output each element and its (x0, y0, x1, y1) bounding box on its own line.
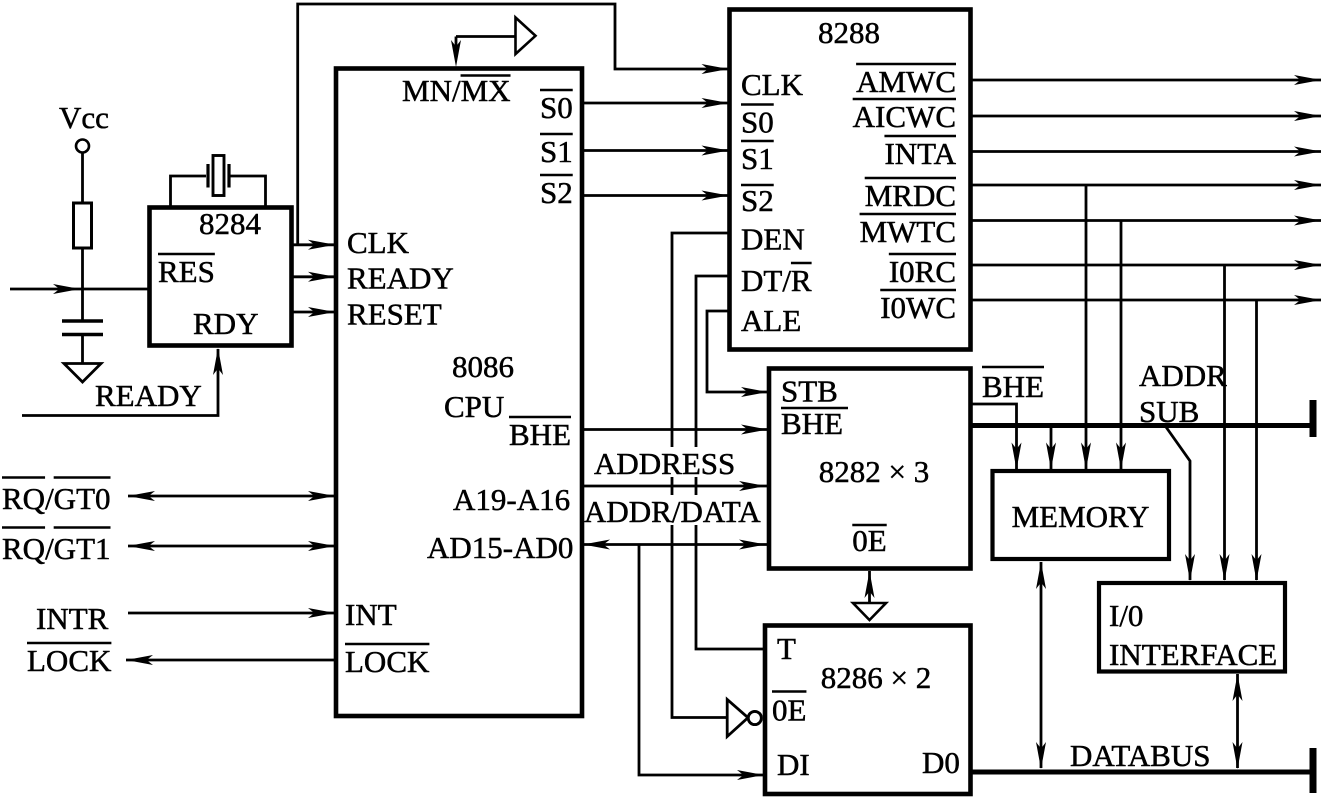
svg-text:S1: S1 (741, 141, 774, 176)
svg-text:LOCK: LOCK (27, 643, 112, 678)
svg-text:RESET: RESET (347, 297, 442, 332)
svg-text:0E: 0E (772, 693, 806, 728)
svg-text:8288: 8288 (818, 15, 880, 50)
svg-text:BHE: BHE (781, 406, 843, 441)
svg-text:STB: STB (781, 374, 838, 409)
svg-text:INTERFACE: INTERFACE (1109, 637, 1277, 672)
svg-text:READY: READY (347, 261, 454, 296)
svg-text:DATABUS: DATABUS (1070, 738, 1210, 773)
svg-text:S2: S2 (741, 183, 774, 218)
svg-text:I0RC: I0RC (889, 254, 956, 289)
svg-text:CLK: CLK (741, 67, 804, 102)
svg-text:AMWC: AMWC (856, 64, 956, 99)
svg-text:8284: 8284 (199, 206, 262, 241)
svg-text:INT: INT (345, 597, 397, 632)
svg-text:D0: D0 (922, 745, 960, 780)
svg-text:MRDC: MRDC (865, 178, 956, 213)
svg-text:ADDRESS: ADDRESS (594, 446, 735, 481)
svg-text:S0: S0 (540, 90, 573, 125)
svg-text:Vcc: Vcc (59, 100, 109, 135)
svg-text:AD15-AD0: AD15-AD0 (427, 530, 573, 565)
svg-text:S0: S0 (741, 105, 774, 140)
svg-text:ADDR/DATA: ADDR/DATA (584, 494, 761, 529)
svg-text:BHE: BHE (509, 417, 571, 452)
svg-text:8286 × 2: 8286 × 2 (821, 660, 931, 695)
svg-text:MN/MX: MN/MX (402, 73, 511, 108)
svg-text:RQ/GT0: RQ/GT0 (2, 481, 111, 516)
svg-text:RDY: RDY (193, 306, 258, 341)
svg-text:A19-A16: A19-A16 (453, 482, 570, 517)
svg-text:0E: 0E (852, 523, 886, 558)
svg-text:MEMORY: MEMORY (1012, 499, 1150, 534)
svg-text:INTA: INTA (884, 136, 956, 171)
svg-text:LOCK: LOCK (345, 644, 430, 679)
svg-text:RQ/GT1: RQ/GT1 (2, 531, 111, 566)
svg-text:8282 × 3: 8282 × 3 (819, 454, 929, 489)
svg-text:SUB: SUB (1139, 394, 1199, 429)
svg-text:INTR: INTR (36, 601, 109, 636)
svg-text:I0WC: I0WC (880, 290, 956, 325)
svg-text:S2: S2 (540, 175, 573, 210)
svg-text:DEN: DEN (741, 222, 805, 257)
svg-text:RES: RES (158, 254, 215, 289)
svg-text:DI: DI (777, 747, 810, 782)
svg-text:CPU: CPU (444, 389, 504, 424)
svg-text:ADDR: ADDR (1139, 358, 1227, 393)
svg-text:T: T (777, 631, 796, 666)
svg-text:I/0: I/0 (1109, 598, 1143, 633)
svg-text:8086: 8086 (452, 349, 514, 384)
svg-text:ALE: ALE (741, 303, 801, 338)
svg-text:DT/R: DT/R (741, 263, 812, 298)
svg-text:MWTC: MWTC (860, 214, 956, 249)
svg-text:CLK: CLK (347, 225, 410, 260)
svg-text:BHE: BHE (982, 369, 1044, 404)
svg-text:AICWC: AICWC (853, 99, 956, 134)
svg-text:S1: S1 (540, 134, 573, 169)
svg-text:READY: READY (95, 378, 202, 413)
